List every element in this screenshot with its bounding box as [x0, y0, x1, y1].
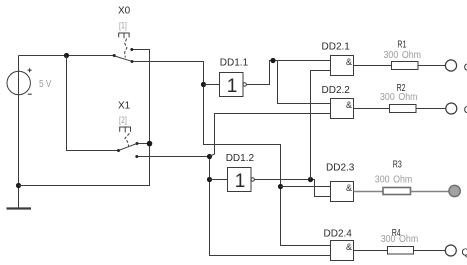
node junction X1-ground [147, 141, 153, 147]
battery V1 [7, 68, 32, 95]
svg-text:1: 1 [235, 171, 246, 192]
svg-text:&: & [346, 57, 352, 67]
wire DD1.1 output to DD2.1 input A [246, 61, 330, 85]
node junction ground rail [16, 183, 21, 188]
wire DD2.4 output [354, 250, 388, 252]
wire R3 to terminal highlighted [411, 191, 449, 193]
svg-text:X1: X1 [118, 100, 131, 111]
svg-text:DD2.2: DD2.2 [322, 85, 351, 96]
inverter DD1.1 [220, 73, 247, 98]
svg-text:1: 1 [227, 76, 238, 97]
dashed link X0 [125, 39, 127, 58]
AND gate DD2.4 [331, 241, 354, 261]
svg-text:&: & [346, 183, 352, 193]
inverter DD1.2 [228, 168, 255, 193]
switch X0 [113, 48, 134, 63]
AND gate DD2.2 [331, 99, 354, 119]
node junction DD2.3 input A [278, 184, 283, 189]
svg-text:300 Ohm: 300 Ohm [384, 50, 422, 61]
terminal out 2 [446, 103, 457, 114]
svg-text:300 Ohm: 300 Ohm [380, 92, 418, 103]
wire top rail V1 to X0 [19, 55, 115, 57]
svg-text:DD2.1: DD2.1 [322, 41, 351, 52]
svg-text:&: & [346, 100, 352, 110]
terminal out 4 [445, 245, 456, 256]
key symbol X1 [120, 127, 131, 132]
resistor R2 [390, 105, 417, 113]
svg-text:R1: R1 [397, 39, 406, 50]
wire DD1.2 output to DD2.3 input B [254, 180, 330, 197]
svg-text:DD2.4: DD2.4 [324, 229, 353, 240]
svg-text:5 V: 5 V [39, 79, 52, 90]
node junction DD1.1 out [270, 58, 275, 63]
wire R2 to terminal [416, 108, 446, 110]
svg-text:[1]: [1] [119, 21, 127, 32]
wire X0 net [133, 62, 331, 246]
wire DD2.2 output [354, 108, 390, 110]
svg-text:[2]: [2] [119, 115, 127, 126]
svg-text:DD1.2: DD1.2 [226, 153, 255, 164]
dashed link X1 [125, 133, 129, 146]
wire riser to DD2.2 input B [210, 114, 331, 157]
wire R1 to terminal [418, 65, 446, 67]
node junction DD1.2 out [308, 177, 313, 182]
terminal out 1 [445, 60, 456, 71]
svg-text:300 Ohm: 300 Ohm [381, 234, 419, 245]
wire V1 vertical through source [18, 56, 20, 208]
node junction top rail [64, 53, 69, 58]
svg-text:R3: R3 [393, 159, 402, 170]
wire tap to DD1.2 input [210, 179, 228, 181]
node junction DD1.2 input [207, 177, 212, 182]
resistor R3 highlighted [383, 188, 411, 195]
resistor R4 [388, 247, 414, 255]
switch X1 [117, 142, 139, 158]
wire ground rail [19, 50, 150, 186]
wire drop to DD2.2 input A [278, 61, 331, 104]
svg-text:&: & [346, 242, 352, 252]
AND gate DD2.3 [331, 182, 354, 202]
node junction DD1.1 input [201, 82, 206, 87]
svg-text:300 Ohm: 300 Ohm [375, 174, 413, 185]
resistor R1 [392, 62, 419, 70]
wire DD2.1 output [354, 65, 392, 67]
terminal out 3 active [449, 185, 460, 196]
wire X1 feed [67, 56, 118, 151]
wire DD2.3 output highlighted [354, 191, 384, 193]
wire tap to DD1.1 input [204, 84, 220, 86]
wire X1 net [138, 157, 331, 256]
svg-text:X0: X0 [118, 5, 131, 16]
AND gate DD2.1 [331, 56, 354, 76]
node junction X1 net [207, 154, 212, 159]
wire X1 top contact to ground riser [138, 143, 150, 145]
wire riser to DD2.1 input B [311, 71, 331, 180]
svg-text:DD1.1: DD1.1 [220, 57, 249, 68]
wire tap to DD2.3 input A [281, 186, 331, 188]
svg-text:DD2.3: DD2.3 [326, 162, 355, 173]
wire R4 to terminal [414, 250, 446, 252]
svg-text:Q: Q [462, 248, 467, 259]
ground [7, 207, 32, 209]
key symbol X0 [119, 33, 129, 38]
